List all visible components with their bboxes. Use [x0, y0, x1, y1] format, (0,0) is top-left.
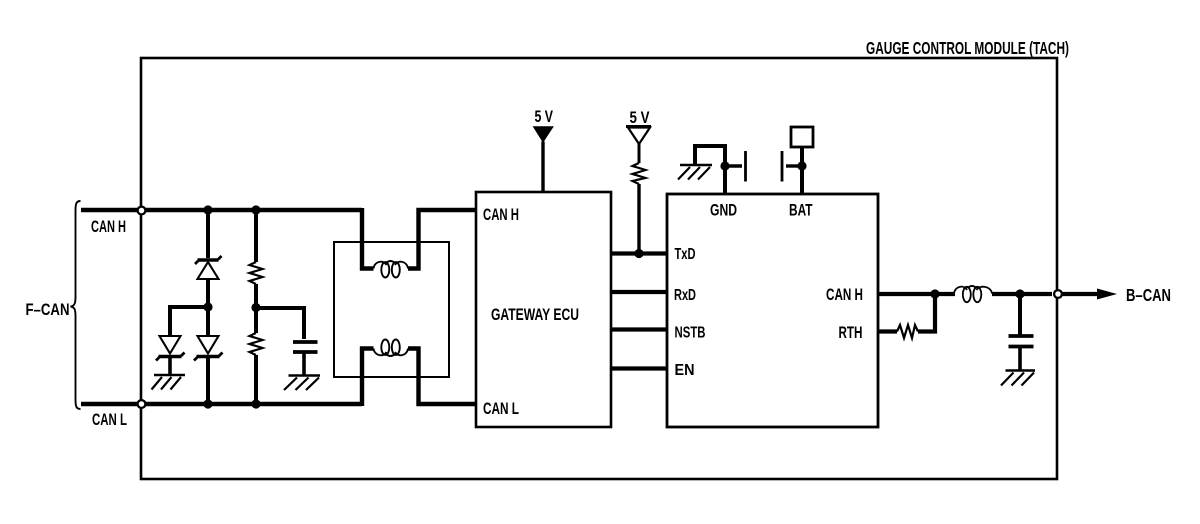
wire: branch left to D2 — [170, 307, 208, 336]
wire: branch to capacitor C1 — [256, 308, 304, 339]
pin label EN — [675, 362, 695, 379]
capacitor C2 at GND pin — [725, 151, 746, 182]
wire: node to capacitor C4 — [1018, 294, 1022, 335]
wire: R3 to TxD line — [637, 184, 640, 254]
outer box: gauge control module enclosure — [141, 58, 1057, 479]
svg-text:CAN H: CAN H — [91, 218, 126, 236]
zener diode D3 (cathode down, to CAN L) — [194, 307, 223, 404]
node: D1 column on CAN H — [203, 205, 212, 214]
ground symbol G4 — [1001, 371, 1035, 386]
label CAN H (left) — [91, 218, 126, 236]
wire: R4 to junction riser — [918, 294, 935, 332]
wire: CAN H rail — [81, 208, 362, 212]
inductor: choke top winding — [374, 261, 409, 278]
wire: CAN L rail — [81, 402, 362, 406]
capacitor C1 — [293, 342, 318, 352]
node: open terminal on CAN L at module edge — [138, 400, 146, 408]
inductor: choke bottom winding — [374, 340, 409, 357]
wire: EN — [611, 366, 667, 370]
svg-text:B–CAN: B–CAN — [1126, 285, 1171, 305]
wire: junction to inductor — [935, 292, 955, 296]
gateway ECU box U1 — [476, 192, 611, 427]
node: junction R1/R2/C1 — [251, 303, 260, 312]
connector: battery terminal square — [791, 127, 813, 147]
zener diode D1 (cathode up) — [195, 256, 222, 279]
wire: choke top winding to ECU CAN H — [408, 210, 476, 269]
ground symbol G1 — [152, 375, 186, 390]
brace for F-CAN bus — [71, 201, 81, 409]
wire: resistor column from CAN H — [254, 210, 258, 262]
wire: D1 to junction — [206, 279, 210, 307]
node: D3 column on CAN L — [203, 399, 212, 408]
node: junction R3/TxD — [634, 249, 643, 258]
wire: zener column from CAN H — [206, 210, 210, 258]
svg-text:GND: GND — [710, 202, 737, 220]
node: open terminal B-CAN at module edge — [1054, 290, 1062, 298]
wire: BAT pin up — [800, 147, 804, 194]
wire: C1 to ground — [302, 352, 306, 375]
wire: B-CAN arrow — [1062, 289, 1117, 300]
svg-text:GATEWAY ECU: GATEWAY ECU — [491, 306, 579, 324]
title: GAUGE CONTROL MODULE (TACH) — [866, 38, 1069, 58]
node: output junction — [1015, 289, 1024, 298]
svg-text:CAN H: CAN H — [826, 286, 863, 304]
common-mode choke L1 outline box — [334, 242, 449, 377]
resistor R2 — [250, 307, 263, 404]
zener diode D2 (cathode down, to ground) — [156, 336, 185, 361]
wire: NSTB — [611, 327, 667, 331]
inductor L2 — [954, 286, 992, 302]
pin label RTH — [839, 324, 863, 342]
pin label GND — [710, 202, 737, 220]
wire: IC CAN H out — [878, 292, 935, 296]
wire: CAN L into choke — [362, 349, 374, 407]
svg-text:BAT: BAT — [789, 202, 813, 220]
wire: C4 to ground — [1018, 347, 1022, 370]
wire: D2 to ground — [168, 357, 172, 374]
label B-CAN — [1126, 285, 1171, 305]
svg-text:5 V: 5 V — [535, 107, 554, 126]
node: junction of zener network — [203, 302, 212, 311]
wire: RTH out — [878, 329, 897, 333]
wire: TxD — [611, 251, 667, 255]
power symbol: 5V supply (open) for TxD pull-up — [626, 108, 651, 163]
pin label CAN L (ECU) — [483, 400, 519, 418]
label F-CAN — [26, 300, 70, 319]
svg-text:CAN L: CAN L — [483, 400, 519, 418]
node: R column on CAN H — [251, 205, 260, 214]
pin label TxD — [675, 246, 696, 263]
pin label BAT — [789, 202, 813, 220]
pin label CAN H (ECU) — [483, 206, 519, 224]
resistor R1 — [250, 262, 263, 284]
svg-text:EN: EN — [675, 362, 695, 379]
svg-text:NSTB: NSTB — [675, 325, 706, 342]
node: BAT junction — [797, 161, 806, 170]
capacitor C3 at BAT pin — [782, 151, 802, 182]
wire: R1 to junction — [254, 284, 258, 308]
wire: CAN H into choke — [362, 208, 374, 269]
svg-text:CAN H: CAN H — [483, 206, 519, 224]
node: CAN H / RTH junction — [930, 289, 939, 298]
svg-text:RxD: RxD — [674, 287, 696, 304]
svg-text:RTH: RTH — [839, 324, 863, 342]
wire: GND to ground symbol — [695, 146, 727, 164]
pin label NSTB — [675, 325, 706, 342]
svg-text:5 V: 5 V — [630, 108, 651, 127]
ground symbol G3 — [678, 165, 712, 180]
svg-text:GAUGE CONTROL MODULE (TACH): GAUGE CONTROL MODULE (TACH) — [866, 38, 1069, 58]
wire: GND pin up — [723, 146, 727, 194]
wire: output node to module edge — [1020, 292, 1052, 296]
CAN transceiver IC U2 — [667, 194, 878, 427]
node: R column on CAN L — [251, 399, 260, 408]
power symbol: 5V supply (filled) for ECU — [534, 107, 553, 192]
node: GND junction — [720, 161, 729, 170]
capacitor C4 — [1009, 336, 1034, 347]
resistor R4 (RTH termination) — [897, 325, 918, 338]
svg-text:CAN L: CAN L — [92, 411, 127, 429]
svg-text:F–CAN: F–CAN — [26, 300, 70, 319]
pin label CAN H (IC right) — [826, 286, 863, 304]
svg-text:TxD: TxD — [675, 246, 696, 263]
resistor R3 (TxD pull-up) — [633, 163, 646, 184]
wire: choke bottom winding to ECU CAN L — [408, 349, 476, 405]
wire: inductor to output node — [992, 292, 1020, 296]
node: open terminal on CAN H at module edge — [138, 207, 146, 215]
ground symbol G2 — [284, 376, 320, 391]
label GATEWAY ECU — [491, 306, 579, 324]
label CAN L (left) — [92, 411, 127, 429]
wire: RxD — [611, 290, 667, 294]
pin label RxD — [674, 287, 696, 304]
